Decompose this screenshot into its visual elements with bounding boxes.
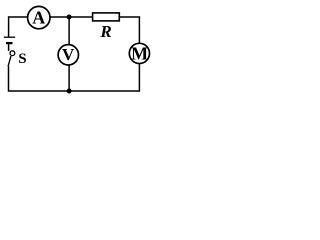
battery negative plate (short thick) — [6, 42, 13, 44]
svg-text:A: A — [32, 8, 45, 28]
svg-text:M: M — [131, 44, 148, 64]
resistor R box — [93, 13, 120, 21]
voltmeter V circle — [58, 45, 78, 65]
wire top-left horizontal — [9, 16, 28, 18]
svg-text:S: S — [18, 51, 26, 67]
wire battery to top-left corner — [8, 17, 11, 37]
wire voltmeter branch bottom — [68, 65, 70, 91]
wire resistor to top-right corner and down — [119, 17, 139, 43]
node junction top — [67, 15, 72, 20]
ammeter A1 circle — [28, 6, 50, 28]
wire voltmeter branch top — [68, 17, 70, 45]
switch S lever — [8, 56, 11, 66]
wire ammeter to junction — [50, 16, 93, 18]
svg-text:V: V — [62, 45, 75, 64]
wire bottom-left — [9, 67, 70, 92]
motor M circle — [129, 43, 149, 63]
switch S circle — [10, 51, 15, 56]
wire motor to bottom-right corner — [69, 63, 139, 91]
wire switch to battery — [8, 44, 10, 51]
svg-text:R: R — [99, 22, 111, 41]
battery positive plate (long thin) — [4, 36, 15, 38]
node junction bottom — [67, 89, 72, 94]
